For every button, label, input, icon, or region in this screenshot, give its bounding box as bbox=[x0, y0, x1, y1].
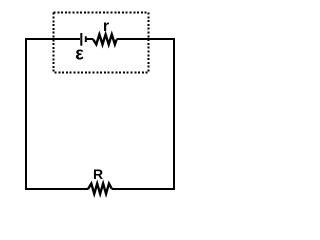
svg-text:R: R bbox=[93, 166, 103, 182]
wire top-left segment bbox=[25, 38, 80, 40]
resistor R zigzag bbox=[88, 184, 112, 194]
battery cell long plate bbox=[80, 33, 82, 46]
wire bottom-left segment bbox=[25, 188, 89, 190]
wire between battery and resistor r bbox=[86, 38, 94, 40]
dotted box around battery and internal resistance bbox=[54, 13, 149, 73]
svg-text:r: r bbox=[103, 18, 109, 35]
wire left vertical bbox=[25, 38, 27, 190]
resistor r zigzag bbox=[93, 34, 116, 44]
wire bottom-right segment bbox=[112, 188, 175, 190]
wire top-right segment bbox=[117, 38, 176, 40]
battery cell short plate bbox=[85, 36, 87, 42]
svg-text:ε: ε bbox=[75, 44, 84, 64]
wire right vertical bbox=[173, 38, 175, 190]
